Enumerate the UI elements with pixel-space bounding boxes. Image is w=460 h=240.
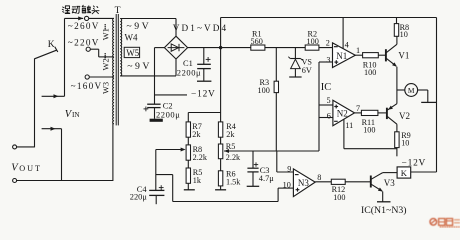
- svg-text:100: 100: [363, 126, 375, 135]
- svg-text:IN: IN: [72, 111, 80, 119]
- svg-text:1: 1: [356, 46, 360, 55]
- svg-text:10: 10: [283, 181, 291, 190]
- svg-text:560: 560: [251, 37, 263, 46]
- svg-text:W1: W1: [101, 28, 110, 40]
- svg-text:2k: 2k: [192, 130, 201, 139]
- svg-text:8: 8: [317, 173, 321, 182]
- svg-text:6: 6: [327, 111, 331, 121]
- svg-text:W5: W5: [126, 48, 139, 58]
- svg-text:2: 2: [326, 38, 330, 47]
- svg-text:M: M: [408, 86, 415, 95]
- svg-text:V: V: [11, 163, 19, 174]
- svg-text:2.2k: 2.2k: [226, 153, 241, 162]
- svg-text:11: 11: [345, 121, 353, 130]
- svg-text:10: 10: [400, 30, 408, 39]
- svg-text:2200μ: 2200μ: [156, 109, 180, 119]
- svg-text:7: 7: [356, 104, 360, 113]
- svg-text:100: 100: [364, 68, 376, 77]
- svg-text:1.5k: 1.5k: [226, 178, 241, 187]
- svg-text:N3: N3: [298, 178, 309, 188]
- svg-text:T: T: [115, 5, 121, 16]
- svg-text:9: 9: [287, 165, 291, 174]
- svg-text:~160V: ~160V: [71, 81, 103, 91]
- svg-text:VD1~VD4: VD1~VD4: [173, 23, 228, 33]
- svg-text:1k: 1k: [193, 176, 202, 185]
- svg-text:K: K: [401, 168, 408, 178]
- svg-text:2.2k: 2.2k: [193, 153, 208, 162]
- svg-text:100: 100: [333, 193, 345, 202]
- svg-text:5: 5: [327, 96, 331, 105]
- svg-text:R5: R5: [226, 142, 236, 151]
- svg-text:W4: W4: [125, 32, 138, 42]
- svg-text:−12V: −12V: [191, 90, 216, 100]
- svg-text:W3: W3: [101, 82, 110, 94]
- svg-text:V3: V3: [384, 178, 395, 188]
- svg-text:6V: 6V: [302, 66, 312, 75]
- svg-text:~9V: ~9V: [126, 21, 151, 32]
- svg-text:IC(N1~N3): IC(N1~N3): [361, 205, 407, 216]
- svg-text:K: K: [48, 39, 55, 50]
- svg-text:100: 100: [307, 37, 319, 46]
- svg-text:~9V: ~9V: [127, 61, 152, 72]
- svg-text:V1: V1: [398, 50, 409, 60]
- svg-text:2200μ: 2200μ: [177, 68, 201, 78]
- svg-text:10: 10: [401, 139, 409, 148]
- svg-text:2k: 2k: [226, 130, 235, 139]
- svg-text:OUT: OUT: [19, 164, 42, 173]
- svg-text:4.7μ: 4.7μ: [259, 174, 274, 183]
- svg-text:100: 100: [258, 86, 270, 95]
- svg-text:W2: W2: [101, 58, 110, 70]
- svg-text:IC: IC: [321, 82, 332, 93]
- svg-text:220μ: 220μ: [130, 193, 148, 202]
- svg-text:N2: N2: [337, 109, 348, 119]
- svg-text:~260V: ~260V: [68, 21, 100, 31]
- svg-text:V2: V2: [399, 111, 410, 121]
- svg-text:4: 4: [345, 40, 350, 50]
- svg-text:~220V: ~220V: [68, 37, 100, 47]
- svg-text:N1: N1: [336, 51, 347, 61]
- svg-text:3: 3: [326, 55, 330, 64]
